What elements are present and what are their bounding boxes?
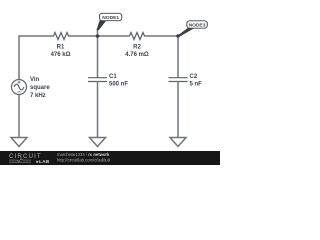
source plus sign — [18, 81, 21, 84]
svg-text:C2: C2 — [190, 74, 198, 80]
svg-text:476 kΩ: 476 kΩ — [51, 52, 71, 58]
node NODE3 flag box — [187, 21, 208, 28]
svg-text:▸LAB: ▸LAB — [36, 159, 50, 164]
wire: source bottom to ground — [18, 95, 20, 138]
ground (right) — [170, 138, 186, 147]
wire: C2 bottom to ground — [177, 82, 179, 138]
footer watermark bar — [0, 151, 220, 165]
wire: C1 bottom to ground — [97, 82, 99, 138]
svg-text:5 nF: 5 nF — [190, 82, 203, 88]
svg-text:500 nF: 500 nF — [109, 82, 128, 88]
svg-text:square: square — [30, 85, 50, 91]
svg-text:7 kHz: 7 kHz — [30, 93, 46, 99]
svg-text:marchese1234 / rc network: marchese1234 / rc network — [57, 152, 110, 157]
ground (left) — [11, 138, 27, 147]
resistor R1 — [52, 33, 70, 40]
node NODE1 flag tail — [97, 21, 106, 30]
wire: R2 to right node — [146, 35, 178, 37]
svg-text:C1: C1 — [109, 74, 117, 80]
wire: between R1 and R2 — [70, 35, 129, 37]
ground (middle) — [90, 138, 106, 147]
resistor R2 — [128, 33, 146, 40]
voltage source V1 (Vin) — [12, 80, 27, 95]
svg-text:NODE3: NODE3 — [189, 23, 206, 29]
junction node A dot — [96, 34, 100, 38]
svg-text:4.76 mΩ: 4.76 mΩ — [125, 52, 149, 58]
svg-text:R1: R1 — [57, 45, 65, 51]
wire: right vertical (node3 to C2) — [177, 36, 179, 78]
node NODE3 flag tail — [178, 28, 194, 36]
source minus sign — [18, 91, 21, 93]
wire: top horizontal left segment (corner to R1) — [19, 36, 52, 80]
svg-text:R2: R2 — [133, 45, 141, 51]
svg-text:http://circuitlab.com/c6sd8u9: http://circuitlab.com/c6sd8u9 — [57, 157, 111, 162]
junction node B dot — [176, 34, 180, 38]
wire: middle vertical top (node1 to C1) — [97, 29, 99, 78]
svg-text:Vin: Vin — [30, 77, 40, 83]
capacitor C1 — [88, 78, 107, 82]
capacitor C2 — [169, 78, 188, 82]
node NODE1 flag box — [100, 13, 122, 20]
svg-text:NODE1: NODE1 — [102, 15, 119, 21]
